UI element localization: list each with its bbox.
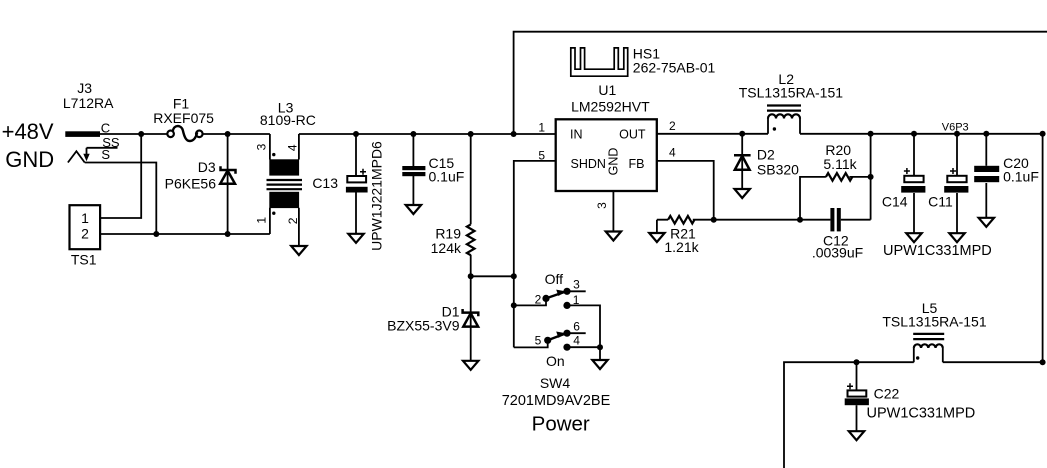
svg-text:C13: C13 — [312, 175, 338, 191]
SW4 contact 1 — [563, 302, 570, 309]
wire C15 lower — [412, 176, 414, 205]
SW4 contact 2 — [542, 295, 549, 302]
svg-text:U1: U1 — [598, 82, 616, 98]
ground C22 — [849, 431, 864, 440]
transformer L3 — [267, 153, 303, 215]
node SHDN junction — [511, 273, 517, 279]
wire FB run — [657, 161, 714, 220]
svg-text:7201MD9AV2BE: 7201MD9AV2BE — [502, 393, 611, 409]
ground D1 — [463, 361, 478, 370]
svg-text:TSL1315RA-151: TSL1315RA-151 — [739, 84, 844, 100]
svg-text:UPW1C331MPD: UPW1C331MPD — [883, 243, 992, 259]
svg-text:4: 4 — [573, 333, 580, 347]
svg-text:2: 2 — [286, 217, 300, 224]
svg-text:C14: C14 — [882, 193, 908, 209]
ground C13 — [348, 234, 363, 243]
wire C14 branch — [913, 134, 915, 176]
resistor R21 — [668, 216, 694, 224]
wire D1 lower to ground — [470, 327, 472, 361]
wire L3 pin2 to ground — [298, 208, 300, 246]
svg-text:SHDN: SHDN — [571, 157, 606, 171]
node J3 C junction — [138, 131, 144, 137]
svg-text:On: On — [546, 353, 565, 369]
SW4 pole A lever — [546, 292, 566, 299]
wire C13 lower — [355, 193, 357, 234]
wire C22 branch — [856, 362, 858, 391]
wire input rail left — [100, 133, 167, 135]
ground SW4 — [592, 360, 607, 369]
ground R21 — [649, 233, 664, 242]
wire L3 pin1 — [269, 208, 271, 234]
svg-text:LM2592HVT: LM2592HVT — [571, 98, 650, 114]
capacitor C14 polarized — [901, 168, 925, 193]
connector TS1 box — [70, 205, 101, 249]
diode D1 zener — [463, 309, 479, 327]
wire D1 upper — [470, 276, 472, 312]
wire C14 lower — [913, 193, 915, 233]
wire C15 branch — [412, 134, 414, 166]
resistor R20 — [826, 173, 852, 181]
wire switch pin1 run — [567, 305, 600, 347]
svg-text:1: 1 — [538, 120, 545, 134]
wire FB node to C12 — [714, 219, 831, 221]
node C15 top — [410, 131, 416, 137]
wire switch pin6 stub — [567, 332, 586, 334]
svg-text:SB320: SB320 — [757, 162, 799, 178]
svg-text:IN: IN — [570, 128, 583, 142]
wire D2 branch — [741, 134, 743, 154]
node R19 top — [468, 131, 474, 137]
resistor R19 — [467, 224, 475, 255]
ground L3 pin2 — [291, 246, 306, 255]
node R21 FB junction — [711, 217, 717, 223]
fuse F1 — [167, 126, 202, 141]
wire right vertical — [1042, 134, 1044, 362]
capacitor C22 polarized — [845, 383, 869, 405]
ground C20 — [979, 218, 994, 227]
heatsink HS1 — [571, 48, 628, 76]
wire input rail mid — [203, 133, 270, 135]
ground C11 — [949, 233, 964, 242]
capacitor C15 — [402, 166, 425, 176]
svg-text:S: S — [101, 147, 110, 162]
wire SS stub — [87, 147, 118, 149]
svg-text:TSL1315RA-151: TSL1315RA-151 — [882, 314, 987, 330]
node D3 bottom — [225, 231, 231, 237]
capacitor C11 polarized — [944, 168, 968, 193]
node L5 rail right corner — [1040, 359, 1046, 365]
svg-text:.0039uF: .0039uF — [812, 245, 863, 261]
svg-text:5: 5 — [535, 333, 542, 347]
node R20 right — [868, 174, 874, 180]
wire input rail right — [299, 133, 556, 135]
svg-text:P6KE56: P6KE56 — [165, 176, 217, 192]
ground U1 pin3 — [606, 232, 621, 241]
wire R19 to node — [470, 255, 472, 276]
diode D3 zener — [220, 166, 235, 184]
node C11 top — [954, 131, 960, 137]
svg-text:8109-RC: 8109-RC — [260, 112, 316, 128]
svg-text:L712RA: L712RA — [63, 95, 114, 111]
svg-text:BZX55-3V9: BZX55-3V9 — [387, 318, 460, 334]
wire L3 pin4 — [298, 134, 300, 160]
svg-text:0.1uF: 0.1uF — [429, 169, 465, 185]
svg-text:1: 1 — [573, 293, 580, 307]
inductor L2 — [767, 106, 801, 134]
svg-text:0.1uF: 0.1uF — [1003, 168, 1039, 184]
svg-text:5: 5 — [538, 149, 545, 163]
connector J3 sleeve chevron — [68, 151, 85, 162]
svg-text:4: 4 — [669, 146, 676, 160]
svg-text:UPW1C331MPD: UPW1C331MPD — [867, 405, 976, 421]
ground C15 — [406, 205, 421, 214]
switch SW4 — [542, 288, 570, 351]
wire OUT rail left — [657, 133, 768, 135]
wire TS1 pin1 to C node — [100, 134, 141, 218]
svg-text:Power: Power — [532, 412, 590, 435]
wire C20 branch — [985, 134, 987, 166]
wire C22 lower — [856, 405, 858, 431]
svg-text:V6P3: V6P3 — [942, 122, 969, 134]
node D2 top — [739, 131, 745, 137]
capacitor C12 — [830, 208, 840, 231]
svg-text:1: 1 — [81, 210, 89, 226]
svg-text:5.11k: 5.11k — [823, 156, 857, 172]
svg-text:262-75AB-01: 262-75AB-01 — [633, 59, 716, 75]
svg-text:TS1: TS1 — [71, 252, 97, 268]
node L2 out — [868, 131, 874, 137]
wire R21 ground side — [657, 220, 668, 233]
wire R20 right — [849, 176, 870, 178]
wire U1 gnd pin — [612, 191, 614, 232]
capacitor C13 polarized — [346, 169, 368, 193]
wire L5 rail left — [784, 362, 914, 468]
svg-text:3: 3 — [595, 202, 609, 209]
node switch pin2 tee — [511, 302, 517, 308]
svg-text:UPW1J221MPD6: UPW1J221MPD6 — [368, 141, 384, 251]
node R19 D1 junction — [468, 273, 474, 279]
wire OUT rail right — [800, 133, 1043, 135]
node S wire bottom — [153, 231, 159, 237]
SW4 contact 5 — [544, 337, 551, 344]
wire R21 to node — [693, 219, 714, 221]
wire C11 branch — [956, 134, 958, 176]
svg-text:3: 3 — [573, 278, 580, 292]
op-amp U1 regulator box — [556, 119, 657, 191]
svg-text:GND: GND — [606, 148, 620, 176]
svg-text:4: 4 — [286, 144, 300, 151]
svg-text:2: 2 — [535, 292, 542, 306]
svg-text:+48V: +48V — [2, 119, 54, 144]
ground C14 — [906, 233, 921, 242]
wire bottom input rail — [100, 233, 270, 235]
wire R19 branch — [470, 134, 472, 224]
wire C13 branch — [355, 134, 357, 176]
capacitor C20 — [974, 166, 999, 182]
SW4 contact 3 — [563, 288, 570, 295]
SW4 contact 6 — [563, 330, 570, 337]
connector J3 switch arrow — [86, 148, 88, 154]
node C14 top — [911, 131, 917, 137]
node C22 top — [854, 359, 860, 365]
wire switch pin2 feed — [514, 298, 546, 305]
svg-text:1.21k: 1.21k — [664, 239, 699, 255]
svg-text:2: 2 — [81, 225, 89, 241]
wire switch pin5 feed — [514, 340, 548, 347]
svg-text:1: 1 — [255, 217, 269, 224]
svg-text:2: 2 — [669, 119, 676, 133]
inductor L5 — [913, 334, 944, 362]
SW4 pole B lever — [548, 334, 566, 341]
svg-text:GND: GND — [5, 147, 54, 172]
wire R20 node riser — [870, 134, 872, 220]
wire C11 lower — [956, 193, 958, 233]
node C12 left — [797, 217, 803, 223]
node C13 top — [353, 131, 359, 137]
wire top boost rail — [514, 32, 1047, 134]
node out rail right corner — [1040, 131, 1046, 137]
node U1 pin1 — [511, 131, 517, 137]
wire S contact run — [85, 163, 157, 235]
svg-text:RXEF075: RXEF075 — [153, 110, 214, 126]
svg-text:C11: C11 — [928, 193, 953, 209]
svg-text:6: 6 — [573, 319, 580, 333]
node C20 top — [983, 131, 989, 137]
svg-text:124k: 124k — [431, 240, 462, 256]
wire D2 lower — [741, 171, 743, 189]
SW4 contact 4 — [563, 344, 570, 351]
wire L5 rail right — [943, 361, 1043, 363]
svg-text:C: C — [101, 121, 110, 136]
svg-text:SW4: SW4 — [540, 375, 571, 391]
svg-text:D3: D3 — [198, 159, 216, 175]
svg-text:FB: FB — [629, 157, 645, 171]
svg-text:3: 3 — [255, 143, 269, 150]
wire C20 lower — [985, 183, 987, 218]
connector J3 center pin bar — [65, 131, 100, 137]
wire switch pin3 stub — [567, 290, 586, 292]
node switch pin4 gnd tee — [597, 344, 603, 350]
wire switch pin4 run — [567, 347, 600, 360]
diode D2 — [734, 155, 751, 170]
wire L3 pin3 — [269, 134, 271, 160]
wire node to SHDN line — [471, 275, 514, 277]
node D3 top — [225, 131, 231, 137]
wire SHDN vertical — [514, 161, 556, 348]
wire D3 branch — [227, 134, 229, 234]
svg-text:Off: Off — [545, 271, 564, 287]
svg-text:C22: C22 — [874, 386, 900, 402]
svg-text:OUT: OUT — [619, 128, 646, 142]
wire C12 right — [841, 219, 871, 221]
svg-text:D2: D2 — [757, 146, 775, 162]
ground D2 — [735, 189, 750, 198]
svg-text:J3: J3 — [77, 80, 92, 96]
wire R20 left riser — [800, 177, 826, 220]
